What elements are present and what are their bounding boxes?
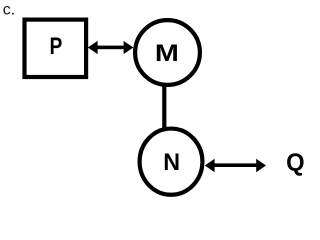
arrow N-Q	[205, 159, 266, 173]
wire M-N	[162, 84, 166, 128]
label M	[155, 39, 179, 66]
circle N	[140, 129, 203, 195]
svg-text:N: N	[163, 149, 180, 175]
arrow P-M	[88, 41, 134, 54]
svg-text:Q: Q	[286, 149, 304, 177]
svg-text:M: M	[155, 39, 179, 66]
label P	[49, 32, 62, 60]
svg-text:P: P	[49, 32, 62, 60]
label c.	[3, 1, 15, 18]
label N	[163, 149, 180, 175]
box P	[25, 20, 87, 77]
label Q	[286, 149, 304, 177]
svg-text:c.: c.	[3, 1, 15, 18]
circle M	[135, 20, 200, 85]
